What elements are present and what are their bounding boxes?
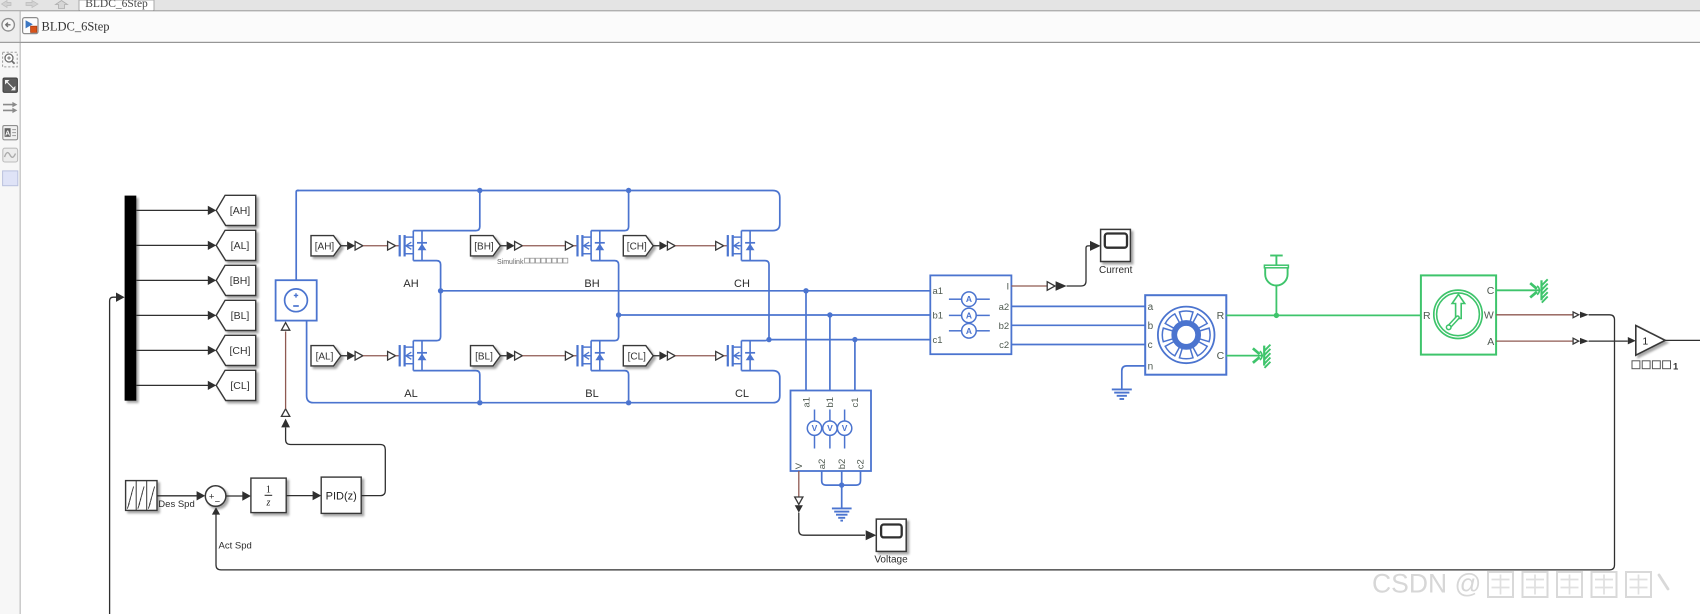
wire: b2 return [841,471,843,485]
from tag [BL] [471,346,501,366]
svg-text:b2: b2 [999,321,1010,332]
left palette background [0,43,21,614]
electrical reference ground (voltage sensor) [832,508,852,520]
wire: demux out 2 [136,241,216,250]
junction: phase C voltage tap [852,337,857,342]
wire: AH drain to DC+ bus [413,193,480,231]
goto tag [BL] [216,300,256,330]
wire: V- riser, DC bottom bus and CL source [307,321,780,403]
MOSFET AL [400,341,427,371]
mechanical rotational reference (sensor case) [1530,279,1548,302]
junction: inertia tap [1274,313,1279,318]
svg-text:z: z [265,498,270,509]
junction: BL source on bottom bus [626,400,631,405]
breadcrumb back-up circle button [2,19,14,31]
svg-text:1: 1 [1673,362,1679,373]
wire: return bus to ground [830,485,852,507]
svg-text:R: R [1217,310,1225,322]
goto tag [AH] [216,195,256,225]
svg-text:n: n [1148,362,1154,373]
wire: current to scope [1067,241,1101,286]
svg-text:c1: c1 [850,397,861,407]
junction: phase A node [438,288,443,293]
wire: demux out 6 [136,381,216,390]
voltmeter icon at x=844.6 [837,410,851,449]
svg-text:1: 1 [1642,335,1648,347]
svg-text:[BL]: [BL] [475,351,493,362]
svg-text:A: A [966,310,972,320]
wire: motor n to ground [1122,366,1145,390]
junction: phase B node [616,312,621,317]
MOSFET CH [728,231,755,261]
toolbar icon: back arrow [2,1,12,8]
ideal rotational motion sensor block [1421,275,1496,354]
svg-text:A: A [966,294,972,304]
svg-text:BL: BL [585,388,598,400]
UI tab strip background [0,0,1700,11]
svg-text:Des Spd: Des Spd [158,499,194,510]
goto tag [BH] [216,265,256,295]
scope block Voltage [876,519,906,551]
wire: BL source to DC- bus [591,371,629,400]
label AH [403,278,418,290]
three-phase current sensor block [930,275,1011,354]
svg-text:[CH]: [CH] [230,345,251,357]
label BL [585,388,598,400]
breadcrumb bottom border [0,42,1700,43]
converter output arrow (speed W) [1580,312,1589,318]
gain block (pole pairs) [1636,326,1665,356]
wire: gain output [1665,339,1700,341]
svg-text:Act Spd: Act Spd [219,541,252,552]
wire: voltage tap a1 [805,291,807,391]
svg-text:1: 1 [266,484,271,495]
svg-text:−: − [215,496,221,507]
svg-text:BH: BH [584,278,599,290]
palette icon: scope wave (disabled) [3,148,18,162]
svg-text:c: c [1148,340,1153,351]
wire: Sum to Unit Delay [226,491,251,500]
converter arrow into Simulink-PS (gate drive) [281,419,290,428]
gate drive chain CH (Simulink-PS converter) [653,241,728,250]
port labels current sensor right [999,281,1010,351]
svg-text:CSDN @: CSDN @ [1372,569,1481,599]
gate drive chain AH (Simulink-PS converter) [341,241,400,250]
motion sensor port labels [1423,285,1495,348]
wire: BH drain to DC+ bus [591,193,629,231]
wire: motor R to motion sensor R [1226,314,1421,316]
physical signal wire: to voltage source [285,331,287,408]
svg-text:a: a [1148,302,1154,313]
svg-text:V: V [794,462,805,469]
svg-text:BLDC_6Step: BLDC_6Step [42,20,110,34]
port labels current sensor left [933,286,944,346]
svg-text:A: A [1487,336,1494,348]
breadcrumb bar [0,11,1700,41]
wire: a2 return [822,471,830,485]
svg-text:c2: c2 [999,340,1009,351]
ammeter A3 icon [949,324,990,339]
palette icon: signal arrows [3,102,17,113]
source block Des Spd (repeating sequence) [126,481,157,511]
physical signal wire: W out [1496,314,1573,316]
from tag [CH] [623,236,653,256]
from tag [CL] [623,346,653,366]
svg-text:[AL]: [AL] [231,240,250,252]
svg-text:C: C [1487,285,1495,297]
svg-text:R: R [1423,310,1431,322]
wire: a2 to motor a [1011,305,1145,307]
demux Demux1 [125,196,137,401]
wire: c2 return [852,471,861,485]
wire: demux out 1 [136,206,216,215]
MOSFET BL [578,341,605,371]
svg-text:a2: a2 [999,302,1010,313]
svg-text:V: V [842,423,848,433]
svg-text:b1: b1 [933,310,944,321]
junction: BH drain on top bus [626,188,631,193]
wire: gate bus input from bottom [110,293,125,614]
wire: phase B half-bridge node [591,261,619,341]
from tag [BH] [471,236,501,256]
from tag [AL] [311,346,341,366]
svg-text:A: A [5,131,10,138]
svg-text:A: A [966,326,972,336]
voltage sensor top port labels [801,397,861,408]
svg-text:CH: CH [734,278,750,290]
wire: sensor C to rotational reference [1496,289,1540,291]
junction: AH drain on top bus [477,188,482,193]
svg-text:[AH]: [AH] [230,205,251,217]
label CL [735,388,749,400]
PS input port arrow of voltage source [281,323,289,331]
wire: demux out 4 [136,311,216,320]
sum junction Sum1 [205,486,226,508]
junction: phase B voltage tap [827,312,832,317]
wire: Des Spd to Sum [157,491,205,500]
unit delay block 1/z [251,478,286,512]
svg-text:I: I [1007,281,1010,292]
svg-text:b: b [1148,321,1154,332]
svg-text:[CH]: [CH] [627,241,647,252]
goto tag [AL] [216,230,256,260]
svg-text:PID(z): PID(z) [326,490,357,502]
svg-text:[CL]: [CL] [230,380,249,392]
wire: DC top bus and CH drain [297,191,780,231]
breadcrumb model icon [23,18,38,34]
wire: motor C to rotational reference [1226,355,1263,357]
ammeter A1 icon [949,292,990,307]
svg-text:BLDC_6Step: BLDC_6Step [85,0,148,10]
MOSFET BH [578,231,605,261]
breadcrumb text BLDC_6Step [42,20,110,34]
wire: phase B to current sensor [619,314,931,316]
gate drive chain BL (Simulink-PS converter) [500,351,577,360]
svg-text:Simulink: Simulink [497,259,524,266]
gate drive chain CL (Simulink-PS converter) [653,351,728,360]
mechanical rotational reference (motor case) [1253,345,1271,368]
svg-text:[BL]: [BL] [231,310,250,322]
PS-Simulink converter (speed W) [1573,312,1579,318]
voltage sensor bottom port labels [794,459,867,470]
wire: phase C half-bridge node [741,261,769,341]
converter output arrow (angle A) [1580,338,1589,344]
svg-text:c1: c1 [933,335,943,346]
MOSFET AH [400,231,427,261]
physical signal wire: A out [1496,340,1573,342]
goto tag [CL] [216,370,256,400]
watermark CSDN [1372,569,1668,599]
controller block PID(z) [321,477,361,513]
wire: angle to gain [1589,337,1636,344]
physical signal wire: I out [1011,285,1047,287]
label Simulink-PS converter name [497,258,568,266]
scope block Current [1101,229,1131,261]
svg-text:a1: a1 [801,397,812,408]
wire: b2 to motor b [1011,324,1145,326]
svg-text:b2: b2 [837,459,848,470]
svg-text:V: V [812,423,818,433]
converter output arrow (current) [1056,281,1067,290]
toolbar icon: forward arrow [26,1,38,8]
label AL [404,388,417,400]
motor port labels [1148,302,1225,373]
wire: Unit Delay to PID [286,491,321,500]
wire: V+ to top bus [296,191,299,281]
svg-text:b1: b1 [825,397,836,408]
svg-text:[BH]: [BH] [230,275,251,287]
svg-text:Voltage: Voltage [874,554,908,565]
goto tag [CH] [216,335,256,365]
inertia block [1264,256,1288,316]
wire: speed feedback to Sum [212,315,1615,570]
PS-Simulink converter (angle A) [1573,338,1579,344]
PS-Simulink converter (voltage) [795,497,803,504]
signal label Des Spd [158,499,194,510]
junction: AL source on bottom bus [477,400,482,405]
svg-text:[BH]: [BH] [474,241,494,252]
svg-text:AH: AH [403,278,418,290]
wire: voltage tap c1 [854,340,856,391]
svg-text:CL: CL [735,388,749,400]
wire: phase A to current sensor [441,290,931,292]
svg-text:V: V [827,423,833,433]
three-phase voltage sensor block [791,391,872,472]
converter output arrow (voltage) [795,505,803,512]
wire: c2 to motor c [1011,344,1145,346]
junction: phase A voltage tap [803,288,808,293]
wire: voltage to scope [799,513,877,541]
wire: PID output up to converter [286,428,386,496]
wire: demux out 5 [136,346,216,355]
junction: voltage sensor return [839,482,844,487]
wire label Act Spd [219,541,252,552]
toolbar icon: up arrow [56,1,68,9]
svg-text:a1: a1 [933,286,944,297]
BLDC motor block [1145,295,1226,375]
voltmeter icon at x=829.9 [823,410,837,449]
MOSFET CL [728,341,755,371]
wire: voltage tap b1 [829,315,831,391]
svg-text:[AH]: [AH] [315,241,335,252]
svg-text:[AL]: [AL] [316,351,334,362]
label BH [584,278,599,290]
voltmeter icon at x=814.5 [807,410,821,449]
svg-text:[CL]: [CL] [628,351,647,362]
svg-text:c2: c2 [856,459,867,469]
junction: phase C node [766,337,771,342]
gate drive chain AL (Simulink-PS converter) [341,351,400,360]
PS-Simulink converter (current) [1047,282,1055,291]
tab strip bottom border [0,10,1700,11]
label CH [734,278,750,290]
palette icon: annotation [3,126,18,140]
wire: phase A half-bridge node [413,261,440,341]
label Voltage [874,554,908,565]
Simulink-PS converter (voltage command) [281,409,289,417]
svg-text:AL: AL [404,388,417,400]
gate drive chain BH (Simulink-PS converter) [500,241,577,250]
palette icon: fit view [3,78,17,92]
svg-text:C: C [1217,350,1225,362]
wire: AL source to DC- bus [413,371,480,400]
label Current [1099,265,1133,276]
svg-text:Current: Current [1099,265,1133,276]
wire: demux out 3 [136,276,216,285]
from tag [AH] [311,236,341,256]
svg-text:W: W [1484,309,1494,321]
wire: phase C to current sensor [769,339,930,341]
palette icon: zoom region [3,52,18,67]
electrical reference ground (motor neutral) [1112,389,1132,399]
physical signal wire: V out [798,471,800,497]
svg-text:a2: a2 [817,459,828,470]
DC voltage source block [276,280,317,320]
active document tab BLDC_6Step [79,0,154,12]
palette icon: viewmark square [3,171,18,186]
ammeter A2 icon [949,308,990,323]
label pole-pairs (CJK) [1632,361,1679,373]
